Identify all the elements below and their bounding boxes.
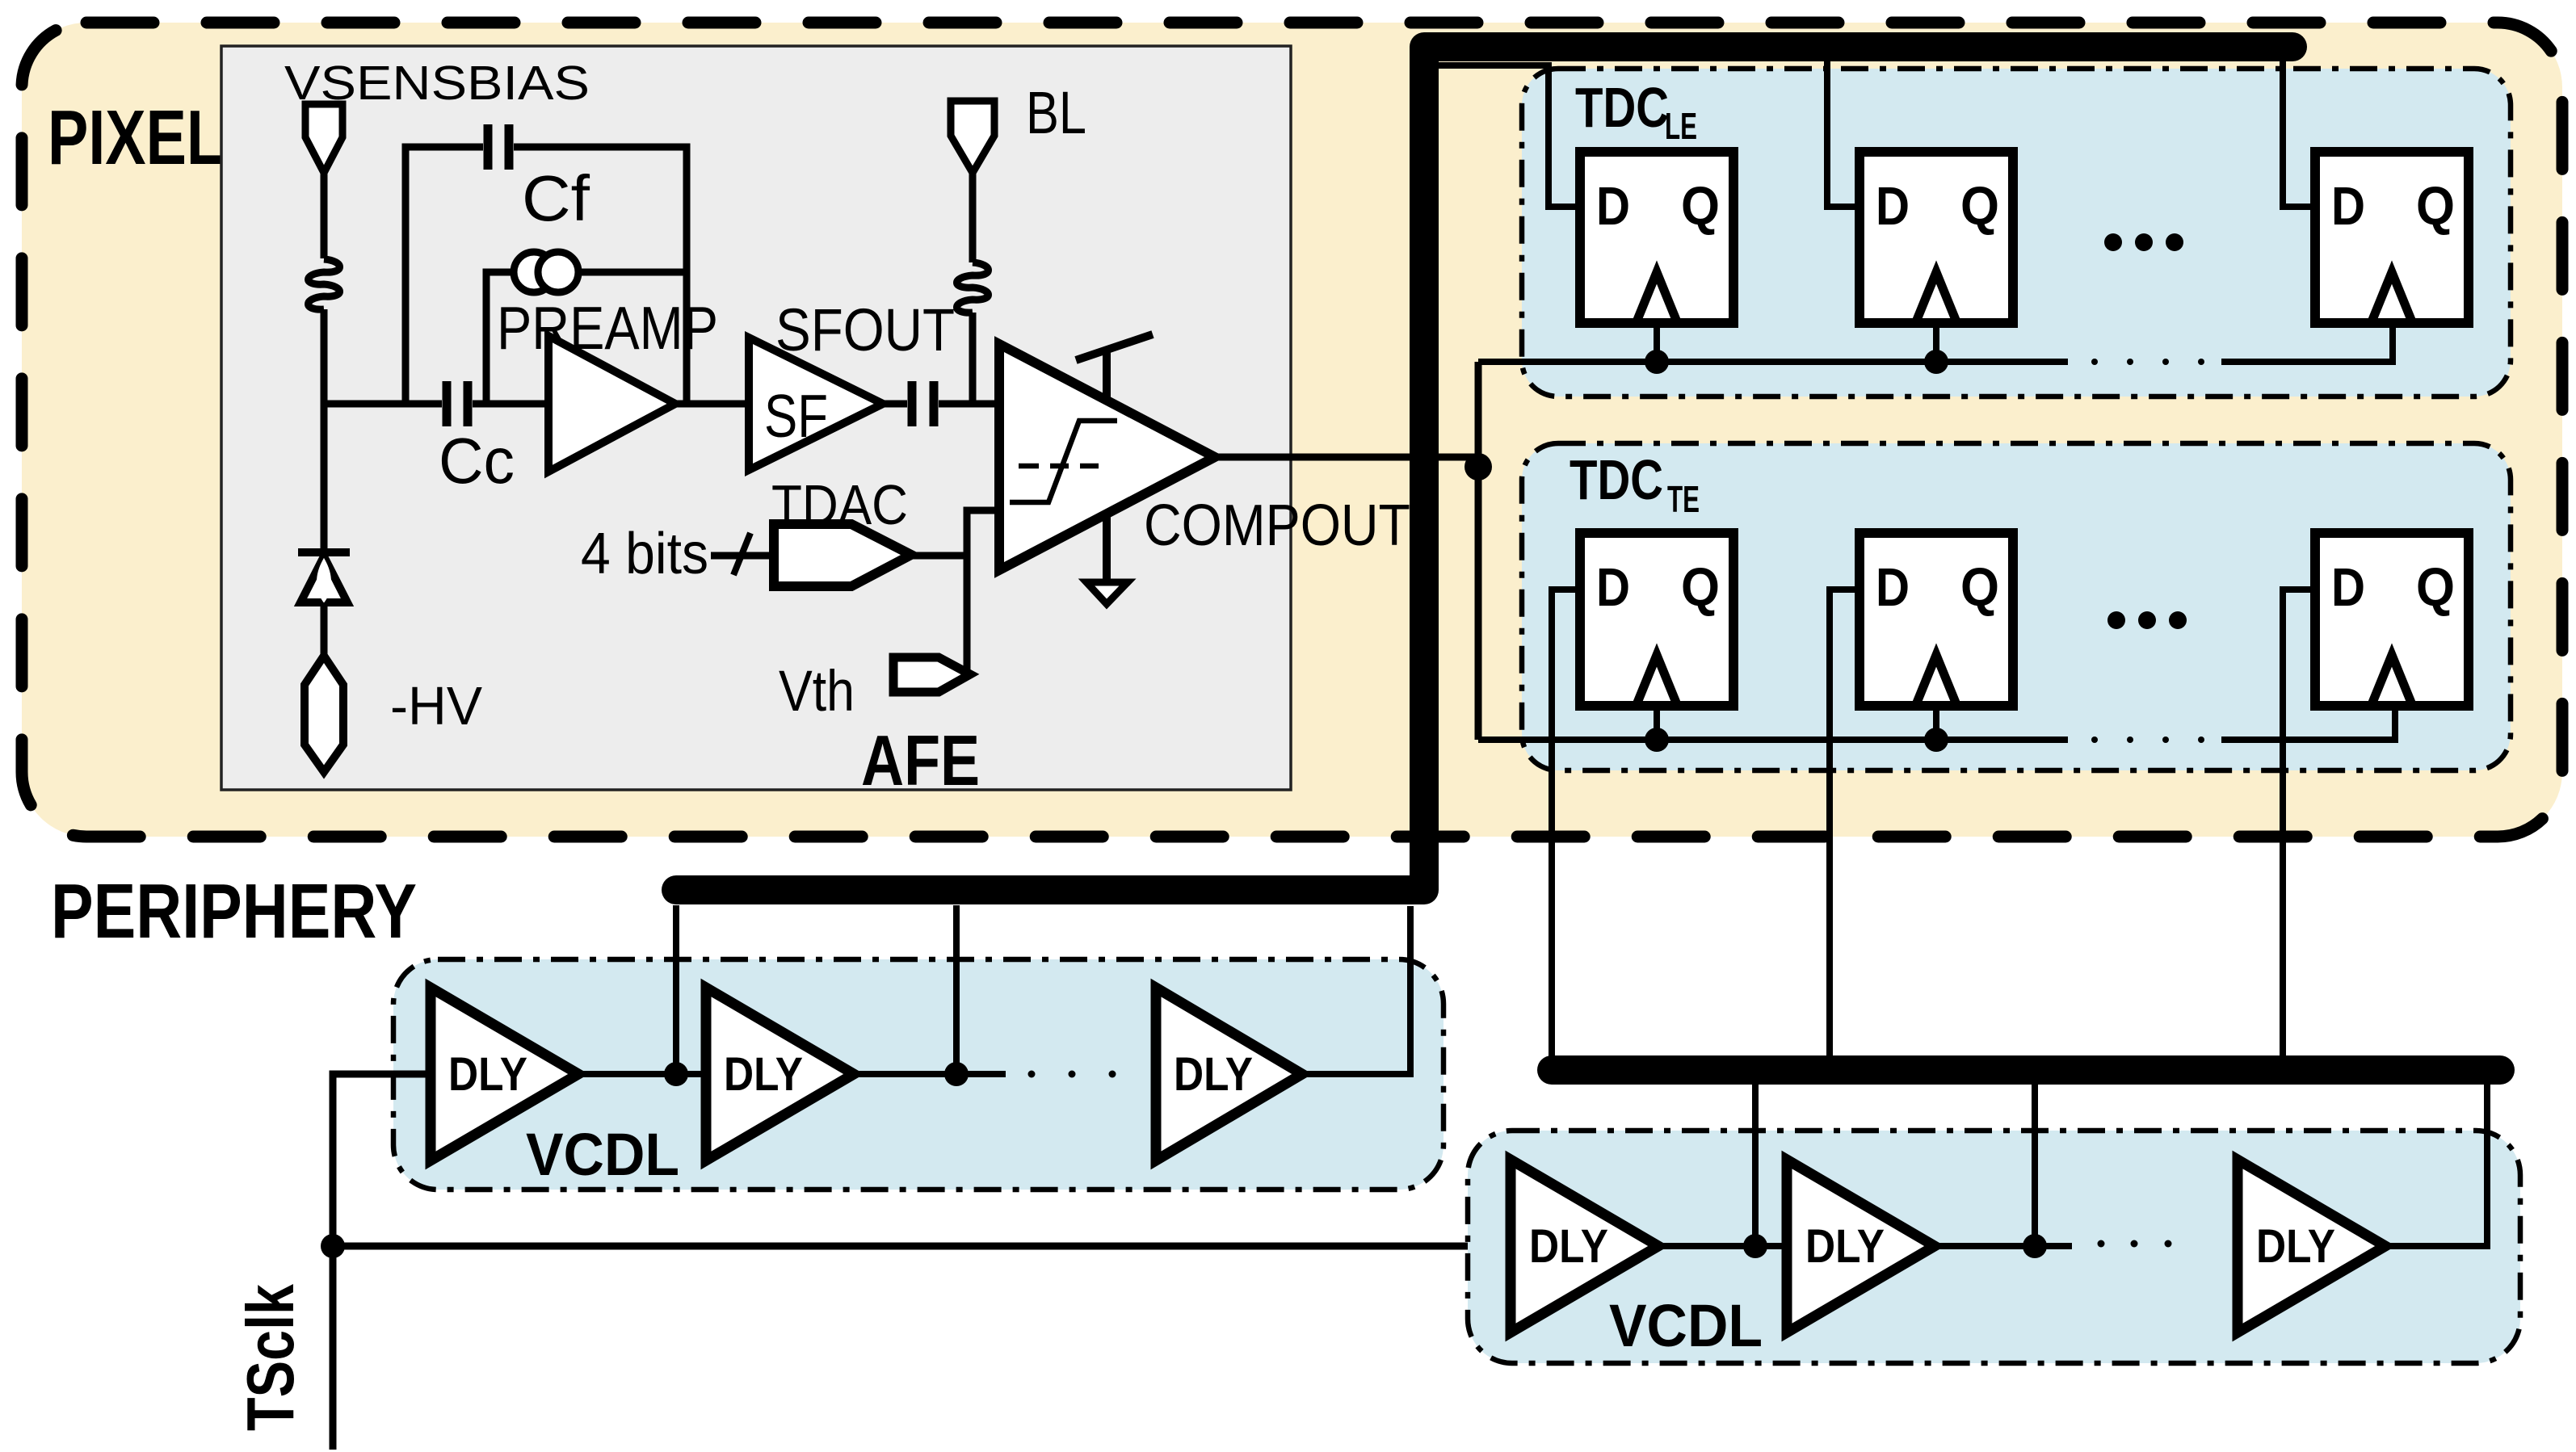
buffer DLY3 (VCDL1)	[1156, 988, 1302, 1160]
svg-text:D: D	[2331, 557, 2365, 618]
wire LE clock line	[1478, 359, 2068, 365]
svg-text:SF: SF	[764, 382, 828, 450]
svg-text:Cf: Cf	[522, 162, 590, 234]
wire DLY2 out (VCDL2)	[1935, 1243, 2072, 1249]
pin BL	[951, 101, 994, 173]
flip-flop FF1_TE	[1580, 533, 1733, 706]
svg-text:TSclk: TSclk	[233, 1283, 308, 1431]
svg-text:DLY: DLY	[1174, 1048, 1253, 1101]
node tap2	[944, 1062, 969, 1086]
op-amp PREAMP	[548, 336, 675, 472]
svg-text:Vth: Vth	[779, 660, 855, 724]
wire diode to -HV pin	[321, 602, 328, 658]
current source I1	[514, 252, 554, 292]
buffer DLY2 (VCDL2)	[1787, 1160, 1935, 1332]
thick bus: TE phase bus	[1552, 1055, 2500, 1085]
wire DLY1 to DLY2	[578, 1071, 706, 1077]
resistor R2 (BL resistor)	[957, 262, 989, 313]
node FF1_TE clock	[1645, 728, 1669, 752]
wire FF2_LE D input	[1827, 61, 1860, 207]
node tap2 VCDL2	[2023, 1234, 2047, 1258]
svg-text:D: D	[1596, 176, 1630, 237]
buffer DLY1 (VCDL2)	[1511, 1160, 1658, 1332]
COMPOUT distribution vertical	[1475, 362, 1482, 740]
svg-text:TE: TE	[1667, 478, 1700, 520]
dotted gap VCDL1	[1028, 1071, 1036, 1078]
wire FF1_TE clock stub	[1654, 706, 1660, 740]
svg-text:SFOUT: SFOUT	[775, 296, 955, 363]
svg-text:Q: Q	[1681, 557, 1720, 618]
DAC TDAC	[774, 524, 911, 586]
wire FF3_TE D input (to phase bus)	[2283, 590, 2315, 1056]
svg-text:DLY: DLY	[724, 1048, 803, 1101]
svg-text:LE: LE	[1665, 105, 1697, 147]
svg-text:D: D	[1876, 176, 1910, 237]
comparator U1	[999, 344, 1215, 570]
flip-flop FF2_LE	[1860, 152, 2013, 323]
svg-text:D: D	[1876, 557, 1910, 618]
wire COMPOUT	[1215, 454, 1478, 461]
wire sensor node down to diode	[321, 404, 328, 549]
dots ellipsis LE row	[2104, 233, 2122, 251]
wire TSclk	[330, 1082, 337, 1450]
svg-text:Q: Q	[2416, 557, 2455, 618]
buffer DLY2 (VCDL1)	[706, 988, 854, 1160]
pin Vth	[893, 657, 970, 692]
wire DLY1 to DLY2 (VCDL2)	[1658, 1243, 1787, 1249]
comparator hysteresis symbol	[1010, 421, 1117, 502]
wire pin to resistor	[321, 173, 328, 258]
svg-text:D: D	[1596, 557, 1630, 618]
svg-text:COMPOUT: COMPOUT	[1144, 493, 1410, 558]
capacitor Cf	[488, 124, 509, 170]
svg-text:Q: Q	[1681, 176, 1720, 237]
svg-text:AFE: AFE	[861, 720, 980, 800]
coupling capacitor	[912, 381, 934, 426]
svg-text:Cc: Cc	[439, 425, 515, 497]
wire FF1_LE clock stub	[1654, 323, 1660, 362]
node tap1 VCDL2	[1743, 1234, 1767, 1258]
flip-flop FF3_TE	[2315, 533, 2469, 706]
svg-text:DLY: DLY	[2256, 1220, 2335, 1273]
wire Cc to preamp input	[473, 401, 548, 408]
svg-text:PIXEL: PIXEL	[48, 94, 224, 181]
node sensor: wire to Cc	[324, 401, 442, 408]
wire DLY3 out to bus (VCDL2)	[2385, 1085, 2487, 1246]
dotted gap LE clock line	[2091, 359, 2098, 365]
flip-flop FF3_LE	[2315, 152, 2469, 323]
node COMPOUT junction	[1464, 453, 1492, 481]
buffer DLY1 (VCDL1)	[431, 988, 578, 1160]
wire riser bus to tap2	[953, 905, 960, 1074]
wire cap to comparator	[939, 401, 999, 408]
node FF2_LE clock	[1924, 350, 1948, 374]
svg-text:DLY: DLY	[448, 1048, 527, 1101]
AFE block	[221, 46, 1291, 790]
resistor R1 (bias resistor)	[309, 259, 340, 309]
wire FF1_TE D input (to phase bus)	[1552, 590, 1580, 1056]
wire TSclk input to DLY1	[333, 1074, 431, 1246]
ground	[1086, 582, 1128, 604]
wire resistor to sensor node	[321, 309, 328, 405]
buffer DLY3 (VCDL2)	[2238, 1160, 2385, 1332]
wire bus riser to tap1 (VCDL2)	[1752, 1085, 1759, 1246]
node FF1_LE clock	[1645, 350, 1669, 374]
svg-text:PERIPHERY: PERIPHERY	[51, 868, 417, 955]
wire FF1_LE D input	[1439, 65, 1580, 207]
comparator clock input	[1076, 334, 1153, 397]
Cf feedback loop wire	[406, 147, 687, 404]
capacitor Cc	[447, 381, 468, 426]
wire riser bus to tap1	[673, 905, 679, 1074]
wire BL resistor to signal node	[969, 313, 977, 404]
TDC_TE block	[1522, 443, 2511, 770]
node TSclk	[321, 1234, 345, 1258]
wire 4-bit bus into TDAC	[711, 552, 774, 560]
svg-text:DLY: DLY	[1529, 1220, 1608, 1273]
wire BL pin to resistor	[969, 173, 977, 262]
wire FF2_LE clock stub	[1933, 323, 1939, 362]
wire TSclk to VCDL2	[333, 1243, 1511, 1250]
svg-text:VCDL: VCDL	[1609, 1292, 1763, 1359]
wire DLY2 out	[854, 1071, 1006, 1077]
svg-text:-HV: -HV	[390, 676, 482, 736]
svg-text:VCDL: VCDL	[526, 1121, 679, 1188]
dots ellipsis TE row	[2107, 611, 2125, 629]
svg-text:Q: Q	[1960, 176, 1999, 237]
wire FF3_TE clock connection	[2221, 706, 2395, 740]
svg-text:TDC: TDC	[1575, 76, 1669, 139]
photodiode D1	[300, 556, 347, 602]
TDC_LE block	[1522, 69, 2511, 397]
svg-text:Q: Q	[2416, 176, 2455, 237]
PIXEL region box	[22, 23, 2562, 837]
wire Vth/TDAC vertical to comparator	[967, 510, 999, 675]
wire preamp out to SF	[675, 401, 749, 408]
current source loop wire	[486, 272, 687, 404]
pin VSENSBIAS	[305, 104, 342, 173]
pin -HV	[305, 656, 343, 772]
dotted gap TE clock line	[2091, 736, 2098, 743]
wire FF2_TE D input (to phase bus)	[1830, 590, 1860, 1056]
wire FF2_TE clock stub	[1933, 706, 1939, 740]
wire FF3_LE D input	[2283, 61, 2315, 207]
VCDL1 block	[393, 959, 1443, 1190]
bus slash	[733, 533, 750, 575]
svg-text:DLY: DLY	[1805, 1220, 1885, 1273]
node FF2_TE clock	[1924, 728, 1948, 752]
wire TDAC output	[911, 552, 967, 560]
comparator ground wire	[1103, 514, 1111, 582]
svg-text:D: D	[2331, 176, 2365, 237]
wire FF3_LE clock connection	[2221, 323, 2393, 362]
dotted gap VCDL2	[2098, 1240, 2105, 1248]
thick bus: top phase bus, vertical riser, left phase bus	[676, 47, 2292, 890]
svg-text:PREAMP: PREAMP	[497, 294, 718, 362]
svg-text:BL: BL	[1026, 79, 1086, 146]
flip-flop FF2_TE	[1860, 533, 2013, 706]
wire DLY3 out to bus	[1302, 906, 1410, 1074]
photodiode D1 cathode bar	[298, 548, 350, 556]
svg-text:TDC: TDC	[1570, 448, 1663, 511]
wire TE clock line	[1478, 736, 2068, 743]
node tap1	[664, 1062, 688, 1086]
svg-text:4 bits: 4 bits	[581, 522, 708, 586]
buffer SF	[749, 338, 883, 470]
VCDL2 block	[1468, 1131, 2520, 1363]
wire bus riser to tap2 (VCDL2)	[2032, 1085, 2038, 1246]
svg-text:Q: Q	[1960, 557, 1999, 618]
flip-flop FF1_LE	[1580, 152, 1733, 323]
wire SF to coupling cap	[883, 401, 907, 408]
